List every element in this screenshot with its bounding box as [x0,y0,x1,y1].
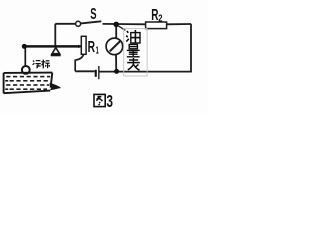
svg-text:1: 1 [96,45,99,56]
svg-text:2: 2 [158,13,163,24]
svg-text:S: S [90,6,96,23]
svg-text:R: R [88,39,96,56]
svg-text:3: 3 [106,91,113,111]
